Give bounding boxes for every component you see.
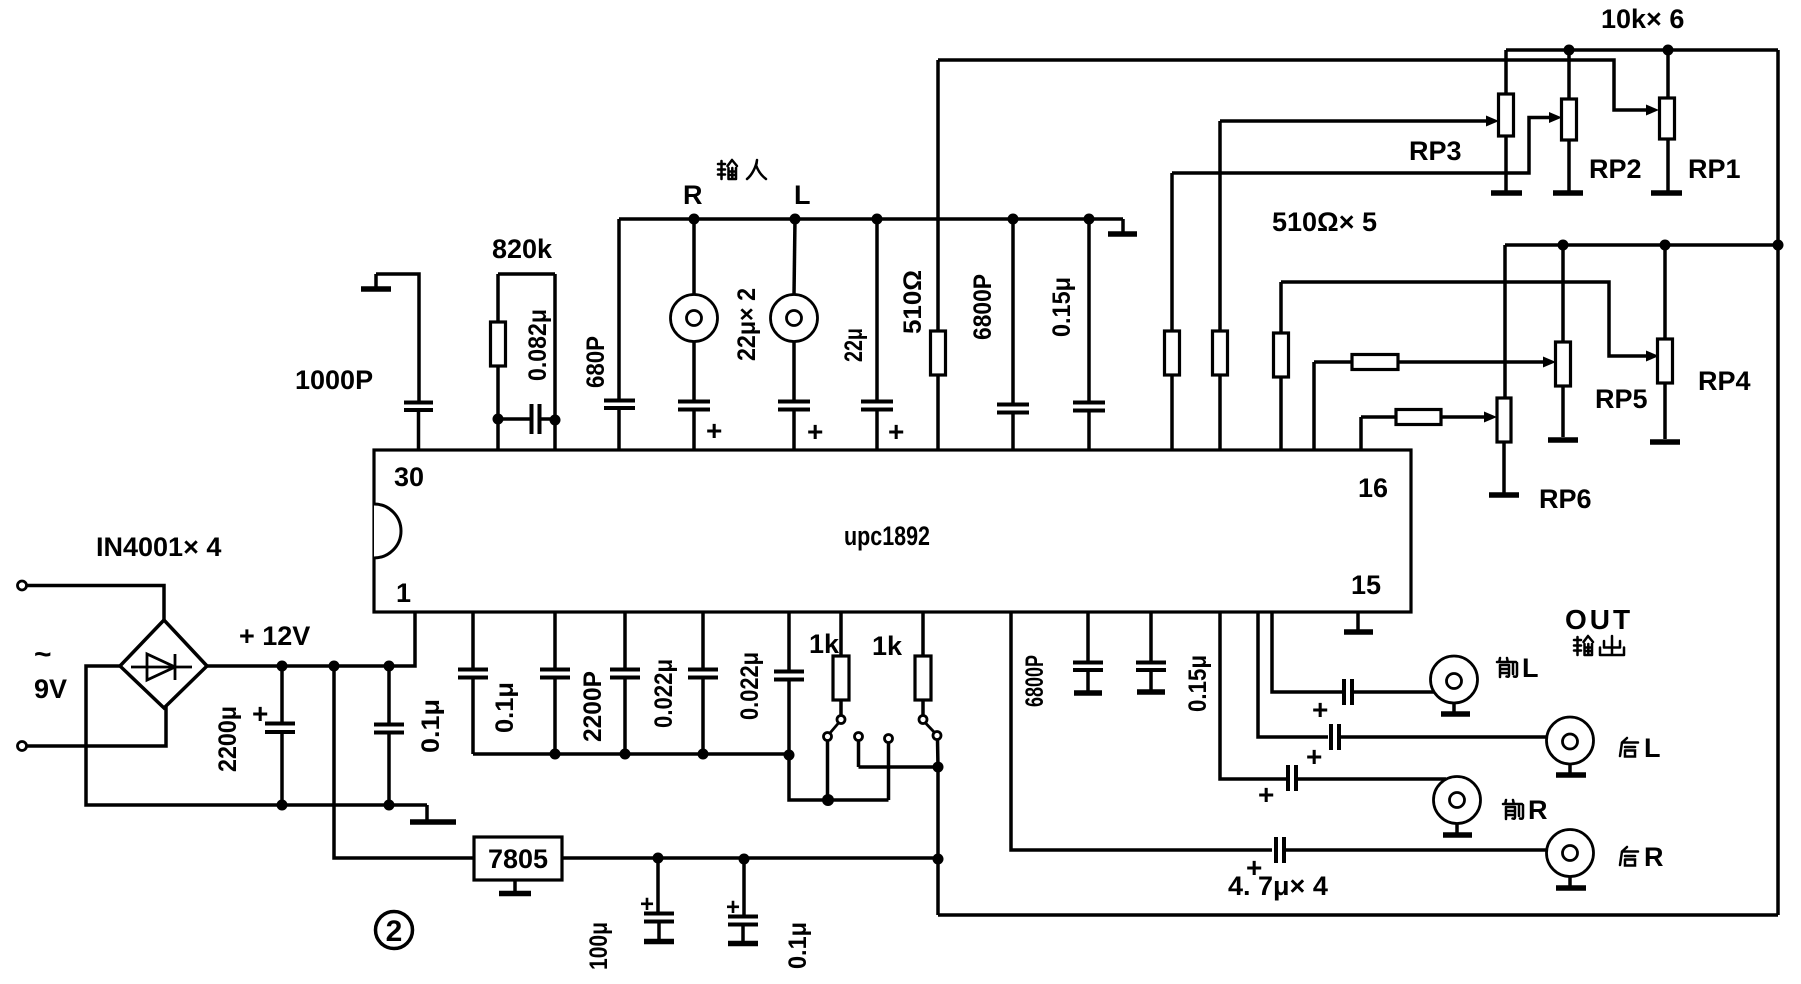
capacitor 0.15u (bottom) (1136, 612, 1166, 692)
wire RP1 wiper feed (938, 60, 1647, 110)
resistor 820k (491, 274, 556, 450)
svg-text:510Ω: 510Ω (899, 270, 927, 334)
wire bottom return rail (938, 913, 1778, 917)
resistor 510ohm #5 + wire RP6 wiper (1361, 410, 1497, 451)
ground (negative rail) (410, 805, 456, 822)
ground 7805 (499, 880, 531, 894)
svg-text:1000P: 1000P (295, 365, 373, 395)
svg-text:2200μ: 2200μ (214, 706, 242, 772)
svg-text:+: + (1306, 741, 1322, 772)
jack rear L (1547, 717, 1594, 775)
ground (top-left, above 1000P) (361, 274, 391, 289)
capacitor 4.7u (rear R) (1246, 837, 1547, 883)
capacitor 0.082u (series, parallel to 820k) (498, 404, 555, 434)
ground RP3 (1491, 190, 1522, 196)
contact B (855, 733, 939, 768)
resistor 1k (right) (915, 612, 931, 715)
potentiometer RP4 (1658, 245, 1673, 439)
capacitor 22u (R channel) (678, 342, 722, 451)
capacitor 0.1u (12V rail) (374, 666, 404, 805)
svg-text:RP3: RP3 (1409, 136, 1462, 166)
label rear L (1620, 733, 1661, 763)
svg-text:RP4: RP4 (1698, 366, 1751, 396)
potentiometer RP6 (1497, 398, 1511, 493)
resistor 510ohm #3 (to RP4 wiper) (1274, 282, 1289, 450)
ground RP6 (1489, 492, 1519, 498)
capacitor 0.022u #1 (610, 612, 640, 754)
wire front-R output (1220, 612, 1286, 779)
node L input junction (790, 214, 801, 225)
svg-text:+: + (888, 416, 904, 447)
label output 输出 (1574, 636, 1624, 655)
node R input junction (689, 214, 700, 225)
svg-text:510Ω× 5: 510Ω× 5 (1272, 207, 1377, 237)
node RP4 top (1660, 240, 1671, 251)
svg-text:RP1: RP1 (1688, 154, 1741, 184)
node RP2 top (1564, 45, 1575, 56)
svg-text:RP2: RP2 (1589, 154, 1642, 184)
capacitor 1000P (404, 403, 433, 451)
svg-text:30: 30 (394, 462, 424, 492)
node 820k left junction (493, 414, 504, 425)
capacitor 2200u (252, 666, 295, 805)
capacitor 6800P (top) (997, 219, 1029, 450)
capacitor 0.1u (pin row) (458, 612, 488, 754)
node 7805 feed top (329, 661, 340, 672)
svg-text:16: 16 (1358, 473, 1388, 503)
node switch common (933, 762, 944, 773)
svg-text:6800P: 6800P (969, 274, 997, 340)
ground (IC pin 15 area) (1344, 612, 1373, 632)
svg-text:1k: 1k (872, 631, 903, 661)
capacitor 4.7u (rear L) (1306, 724, 1547, 772)
label front L (1497, 653, 1539, 683)
svg-text:IN4001× 4: IN4001× 4 (96, 532, 221, 562)
wire bus to switch line (789, 754, 889, 800)
node cap bus junction x=555 (550, 749, 561, 760)
svg-text:1: 1 (396, 578, 411, 608)
svg-text:L: L (1522, 653, 1539, 683)
svg-text:680P: 680P (582, 336, 610, 388)
svg-text:L: L (1644, 733, 1661, 763)
wire RP2 wiper (1172, 112, 1562, 173)
wire 10k lower bus (1505, 243, 1778, 247)
wire +12V rail to IC pin1 (207, 612, 415, 666)
svg-text:+: + (1312, 694, 1328, 725)
capacitor 22u (L channel) (778, 342, 823, 451)
capacitor 100u (640, 858, 674, 942)
svg-text:upc1892: upc1892 (844, 521, 930, 551)
wire RP6 feed (1503, 245, 1507, 398)
capacitor 4.7u (front L) (1312, 679, 1434, 725)
potentiometer RP5 (1556, 245, 1571, 437)
resistor 510ohm #2 (to RP3 wiper) (1213, 121, 1228, 450)
svg-text:OUT: OUT (1565, 604, 1633, 635)
svg-text:RP6: RP6 (1539, 484, 1592, 514)
wire AC bottom to bridge (27, 706, 167, 746)
terminal AC bottom (18, 742, 27, 751)
wire switch common to 5V rail (936, 767, 940, 915)
node RP5 top (1558, 240, 1569, 251)
label input 输入 (718, 160, 766, 179)
wire 7805 input (334, 666, 474, 858)
resistor 1k (left) (833, 612, 849, 715)
wire RP4 wiper (1281, 282, 1659, 362)
wire RP3 wiper (1220, 116, 1499, 127)
node 2200u bottom (277, 800, 288, 811)
bridge rectifier IN4001x4 (120, 620, 207, 708)
wire front-L output (1272, 612, 1344, 692)
svg-text:0.022μ: 0.022μ (650, 659, 678, 728)
wire rear-L output (1258, 612, 1328, 737)
node 0.1u bottom (384, 800, 395, 811)
svg-text:R: R (683, 180, 703, 210)
wire rear-R output (1011, 612, 1272, 850)
resistor 510ohm #4 + wire RP5 wiper (1314, 355, 1556, 451)
regulator 7805 (474, 837, 562, 880)
svg-text:+: + (1258, 779, 1274, 810)
svg-text:+ 12V: + 12V (239, 621, 310, 651)
svg-text:+: + (706, 415, 722, 446)
resistor 510ohm #1 (to RP2 wiper) (1165, 173, 1180, 450)
svg-text:15: 15 (1351, 570, 1381, 600)
capacitor 2200P (540, 612, 570, 754)
jack R input (671, 219, 718, 342)
node cap bus junction x=703 (698, 749, 709, 760)
svg-text:0.1μ: 0.1μ (491, 682, 519, 733)
wire 10k top bus (1506, 48, 1778, 52)
node RP1 top (1663, 45, 1674, 56)
wire bottom cap bus (473, 752, 789, 756)
wire ground to 1000P top (376, 274, 419, 401)
node 0.1u(5V) top (739, 854, 750, 865)
svg-text:RP5: RP5 (1595, 384, 1648, 414)
capacitor 22u (861, 219, 904, 450)
node cap bus junction x=625 (620, 749, 631, 760)
svg-text:L: L (794, 180, 811, 210)
ground RP4 (1650, 439, 1680, 445)
svg-text:R: R (1644, 842, 1664, 872)
node 100u top (653, 853, 664, 864)
svg-text:0.082μ: 0.082μ (524, 309, 552, 381)
label rear R (1620, 842, 1664, 872)
capacitor 0.022u #2 (688, 612, 718, 754)
label front R (1503, 795, 1548, 825)
potentiometer RP2 (1562, 50, 1577, 191)
figure number 2 (376, 912, 413, 949)
svg-text:100μ: 100μ (585, 922, 613, 970)
capacitor 0.022u #3 (774, 612, 804, 754)
potentiometer RP3 (1499, 50, 1514, 191)
node cap bus corner junction (784, 750, 795, 761)
node 22u junction (872, 214, 883, 225)
capacitor 6800P (bottom) (1073, 612, 1103, 693)
ground RP1 (1651, 190, 1682, 196)
node switch junction (822, 794, 834, 806)
jack L input (771, 219, 818, 342)
IC U1 upc1892 body (374, 450, 1411, 612)
switch S1 (824, 716, 846, 801)
potentiometer RP1 (1660, 50, 1675, 191)
node right rail join (1773, 240, 1784, 251)
svg-text:0.15μ: 0.15μ (1184, 655, 1212, 712)
svg-text:0.1μ: 0.1μ (417, 699, 445, 753)
svg-text:0.1μ: 0.1μ (784, 922, 812, 969)
svg-text:+: + (807, 416, 823, 447)
svg-text:9V: 9V (34, 674, 67, 704)
node 0.1u top (384, 661, 395, 672)
svg-text:820k: 820k (492, 234, 553, 264)
svg-text:10k× 6: 10k× 6 (1601, 4, 1684, 34)
svg-text:0.022μ: 0.022μ (736, 652, 764, 720)
svg-text:2200P: 2200P (579, 671, 607, 742)
node 5V rail join (933, 854, 944, 865)
ground (input bus right end) (1108, 219, 1137, 234)
node 820k right junction (550, 415, 561, 426)
wire negative rail (86, 666, 427, 805)
jack front L (1431, 656, 1478, 714)
svg-text:R: R (1528, 795, 1548, 825)
jack front R (1434, 777, 1481, 836)
svg-text:4. 7μ× 4: 4. 7μ× 4 (1228, 871, 1328, 901)
terminal AC top (18, 581, 27, 590)
capacitor 4.7u (front R) (1258, 765, 1446, 810)
switch S2 (919, 716, 941, 768)
input bus wire (619, 217, 1123, 221)
resistor 510 ohm (input) (931, 60, 946, 450)
wire 7805 output rail (562, 856, 938, 860)
svg-text:22μ× 2: 22μ× 2 (733, 288, 761, 361)
node 0.15u junction (1084, 214, 1095, 225)
node 2200u top (277, 661, 288, 672)
ground RP2 (1553, 190, 1583, 196)
contact C (885, 735, 893, 801)
jack rear R (1547, 830, 1594, 889)
svg-text:6800P: 6800P (1021, 655, 1049, 707)
ground RP5 (1548, 437, 1578, 443)
svg-text:~: ~ (34, 638, 52, 671)
capacitor 680P (604, 219, 635, 450)
svg-text:7805: 7805 (488, 844, 548, 874)
wire AC top to bridge (27, 586, 165, 623)
capacitor 0.1u (5V rail) (726, 859, 758, 944)
svg-text:0.15μ: 0.15μ (1048, 277, 1076, 337)
capacitor 0.15u (top) (1073, 219, 1105, 450)
svg-text:22μ: 22μ (840, 328, 868, 362)
wire right-side rail (1776, 50, 1780, 915)
node 6800P junction (1008, 214, 1019, 225)
svg-text:2: 2 (386, 915, 403, 948)
